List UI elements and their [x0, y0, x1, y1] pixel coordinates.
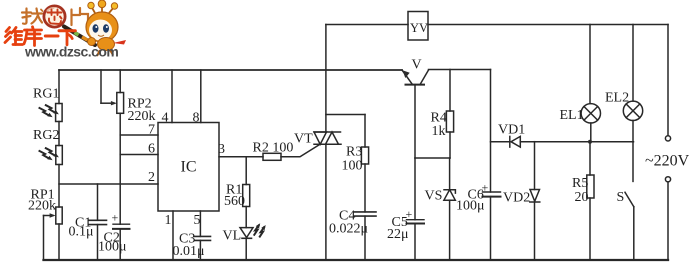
RP1 wiper arrow	[44, 215, 53, 217]
svg-text:EL1: EL1	[560, 108, 584, 123]
zener VS	[449, 158, 451, 190]
LED VL	[240, 228, 253, 238]
svg-text:0.01μ: 0.01μ	[173, 244, 205, 259]
wire top rail	[59, 69, 402, 71]
wire RG2 to RP1	[58, 165, 60, 208]
VL light arrows	[254, 223, 265, 236]
relay YV box	[408, 12, 428, 41]
wire YV right to mains	[428, 24, 668, 26]
resistor RG2	[56, 146, 63, 165]
wire pin1 lead	[172, 211, 174, 260]
wire R3 branch	[326, 114, 365, 116]
svg-text:220k: 220k	[28, 199, 56, 214]
svg-text:3: 3	[218, 142, 225, 157]
svg-text:0.1μ: 0.1μ	[69, 225, 94, 240]
wire R1 to VL	[245, 207, 247, 228]
resistor R4	[449, 70, 451, 112]
terminal upper	[667, 25, 669, 136]
svg-text:0.022μ: 0.022μ	[329, 222, 368, 237]
svg-text:R3: R3	[346, 145, 362, 160]
watermark	[5, 0, 126, 60]
svg-text:V: V	[412, 58, 422, 73]
wire pin8 lead	[200, 70, 202, 123]
wire V base lead	[414, 85, 416, 158]
wire pin7 net	[120, 134, 158, 136]
svg-text:1k: 1k	[432, 124, 446, 139]
wire VT cathode down	[325, 144, 327, 260]
diode VD1	[491, 141, 510, 143]
svg-text:+: +	[112, 211, 119, 225]
库	[31, 27, 34, 29]
wire pin3 net	[219, 156, 263, 158]
potentiometer RP1	[56, 207, 62, 224]
svg-text:VS: VS	[425, 189, 443, 204]
svg-text:VT: VT	[294, 132, 313, 147]
下	[59, 29, 75, 32]
RG1 light arrows	[40, 105, 59, 117]
resistor R2	[263, 153, 281, 160]
wire collector down / C6 lead	[490, 70, 492, 193]
capacitor C3	[195, 235, 211, 237]
wire YV feed left	[326, 24, 408, 26]
transistor V	[402, 70, 413, 85]
wire RG1-RG2	[58, 122, 60, 146]
找 char (vector strokes)	[22, 9, 43, 24]
wire V collector rail	[429, 69, 491, 71]
wire RP1 bottom	[58, 224, 60, 260]
lamp EL2	[632, 25, 634, 102]
wire left chain top	[58, 70, 60, 104]
svg-text:www.dzsc.com: www.dzsc.com	[24, 44, 118, 60]
svg-text:20: 20	[575, 190, 589, 205]
mascot	[64, 0, 126, 56]
svg-text:~220V: ~220V	[645, 153, 690, 170]
resistor RG1	[56, 104, 63, 122]
potentiometer RP2	[117, 93, 124, 114]
wire pin4 lead	[171, 70, 173, 123]
svg-text:100μ: 100μ	[456, 199, 485, 214]
svg-text:8: 8	[193, 111, 200, 126]
svg-text:R2 100: R2 100	[253, 141, 294, 156]
wire R1 lead	[245, 157, 247, 185]
wire R2 to gate	[281, 144, 320, 157]
wire RP2 down through nets to C2	[119, 113, 121, 224]
svg-text:100: 100	[342, 159, 363, 174]
片 char (vector strokes)	[72, 8, 89, 25]
op-amp U1 (IC box)	[158, 123, 219, 212]
svg-text:4: 4	[162, 111, 169, 126]
svg-text:2: 2	[148, 170, 155, 185]
svg-text:RG2: RG2	[33, 128, 59, 143]
svg-text:22μ: 22μ	[387, 227, 409, 242]
capacitor C1	[97, 184, 99, 220]
wire pin6 net	[120, 154, 158, 156]
svg-text:EL2: EL2	[605, 91, 629, 106]
lamp EL1	[589, 25, 591, 104]
RG2 light arrows	[40, 148, 59, 160]
一	[45, 35, 58, 38]
wire EL2 to switch	[632, 121, 634, 182]
svg-text:VD2: VD2	[503, 191, 530, 206]
svg-text:VD1: VD1	[498, 123, 525, 138]
svg-text:1: 1	[165, 213, 172, 228]
svg-text:+: +	[406, 207, 413, 221]
维库一下 red (vector strokes)	[5, 27, 75, 46]
diode VD2	[534, 142, 536, 190]
capacitor C5	[414, 158, 416, 220]
wire RP1 wiper down	[43, 216, 45, 261]
wire RP2 wiper feed	[100, 70, 102, 103]
svg-text:7: 7	[148, 123, 155, 138]
wire bottom rail	[44, 259, 669, 261]
capacitor C4	[355, 211, 377, 213]
resistor R1	[243, 185, 250, 207]
wire base-R4 rung	[415, 157, 450, 159]
svg-text:+: +	[482, 181, 489, 195]
resistor R3	[361, 147, 368, 164]
svg-text:100μ: 100μ	[98, 240, 127, 255]
svg-text:5: 5	[194, 213, 201, 228]
wire pin2 net	[59, 183, 158, 185]
capacitor C2	[113, 223, 130, 225]
wire pin5 lead	[199, 211, 201, 236]
magnifier ring	[44, 6, 65, 27]
芯 char inside	[48, 10, 62, 25]
svg-text:VL: VL	[223, 229, 242, 244]
svg-text:6: 6	[148, 142, 155, 157]
wire VT anode (from YV wire down)	[325, 25, 327, 133]
switch S	[625, 192, 634, 206]
triac VT	[314, 131, 341, 133]
node R5 junction	[588, 140, 592, 144]
维	[5, 28, 11, 43]
capacitor C6	[483, 191, 501, 193]
svg-text:YV: YV	[410, 21, 428, 35]
resistor R5	[589, 142, 591, 175]
svg-text:IC: IC	[181, 159, 197, 176]
svg-text:RG1: RG1	[33, 87, 59, 102]
svg-text:S: S	[617, 190, 625, 205]
terminal lower	[665, 177, 670, 182]
svg-text:R5: R5	[572, 176, 588, 191]
svg-text:560: 560	[224, 194, 245, 209]
wire RP2 top lead	[119, 70, 121, 93]
